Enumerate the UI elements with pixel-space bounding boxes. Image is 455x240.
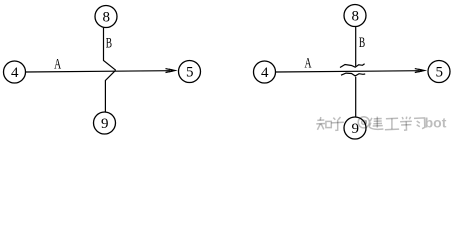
svg-text:A: A bbox=[305, 56, 312, 72]
svg-text:bot: bot bbox=[425, 114, 447, 130]
svg-text:4: 4 bbox=[261, 65, 269, 81]
svg-text:B: B bbox=[106, 36, 112, 52]
svg-text:5: 5 bbox=[186, 65, 194, 81]
svg-text:8: 8 bbox=[103, 9, 111, 25]
svg-text:5: 5 bbox=[436, 65, 444, 81]
svg-text:8: 8 bbox=[352, 8, 360, 24]
svg-text:B: B bbox=[359, 35, 365, 51]
svg-text:9: 9 bbox=[101, 116, 109, 132]
svg-text:4: 4 bbox=[11, 65, 19, 81]
svg-text:A: A bbox=[54, 57, 61, 73]
